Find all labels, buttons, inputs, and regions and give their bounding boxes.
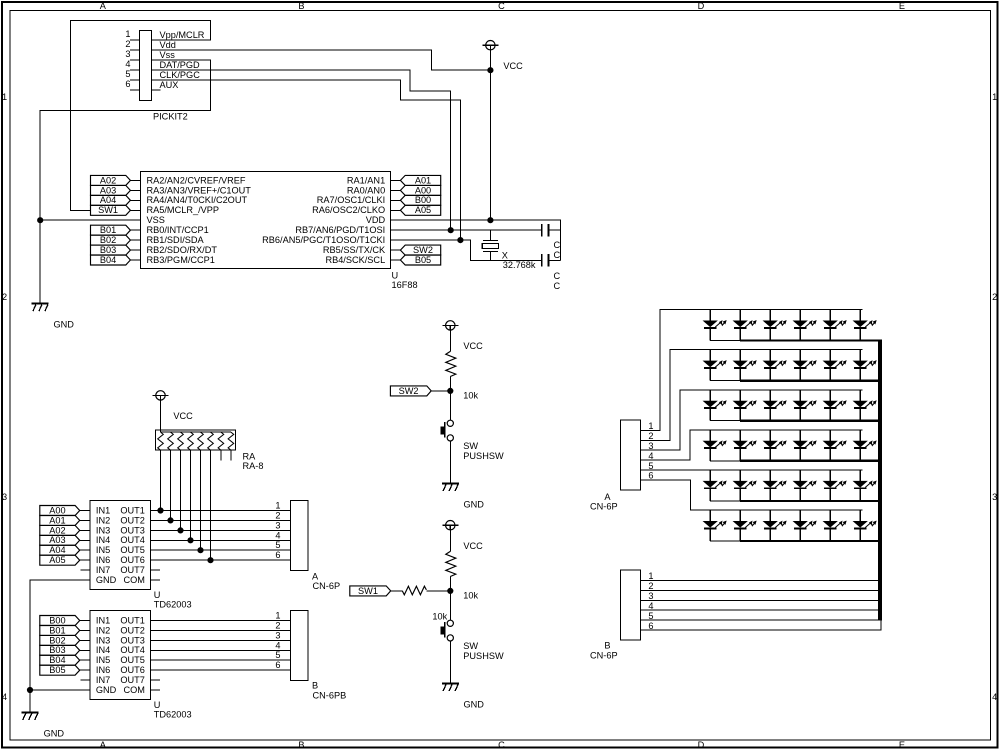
svg-text:B05: B05 bbox=[415, 255, 431, 265]
wire RA-8 lead 6 to OUT6 bbox=[210, 450, 212, 560]
wire row4 cathode thin bbox=[710, 460, 740, 462]
svg-text:CN-6P: CN-6P bbox=[590, 501, 618, 511]
net flag SW1 at U1 left bbox=[91, 205, 141, 215]
wire VCC to RA-8 bbox=[160, 400, 162, 432]
svg-text:Vpp/MCLR: Vpp/MCLR bbox=[160, 30, 205, 40]
wire CN-B pin2 to bus bbox=[641, 589, 881, 591]
svg-text:A05: A05 bbox=[415, 205, 431, 215]
wire Vss to GND rail bbox=[40, 60, 210, 304]
wire row2 cathode thin bbox=[710, 380, 740, 382]
svg-text:RB0/INT/CCP1: RB0/INT/CCP1 bbox=[147, 225, 209, 235]
svg-text:GND: GND bbox=[54, 320, 75, 330]
svg-text:3: 3 bbox=[125, 49, 130, 59]
LED D32 row3 col2 bbox=[734, 390, 756, 421]
svg-text:A04: A04 bbox=[49, 545, 65, 555]
TD62003 lower pin names bbox=[96, 615, 145, 695]
svg-text:4: 4 bbox=[648, 451, 653, 461]
svg-text:SW: SW bbox=[463, 641, 478, 651]
net flag A05 at U1 right bbox=[391, 205, 441, 215]
svg-text:B00: B00 bbox=[415, 195, 431, 205]
junction VCC/VDD bbox=[488, 218, 493, 223]
svg-text:X: X bbox=[502, 250, 508, 260]
svg-text:CN-6P: CN-6P bbox=[313, 581, 341, 591]
LED D16 row1 col6 bbox=[854, 310, 876, 341]
svg-text:PUSHSW: PUSHSW bbox=[463, 651, 504, 661]
svg-text:OUT4: OUT4 bbox=[120, 535, 145, 545]
net flag B00 at U1 right bbox=[391, 195, 441, 205]
net flag A05 at TD62003 upper bbox=[40, 555, 90, 565]
wire RA-8 lead 1 to OUT1 bbox=[160, 450, 162, 510]
wire CN-B pin5 to bus bbox=[641, 619, 881, 621]
net flag B02 at TD62003 lower bbox=[40, 635, 90, 645]
svg-text:B03: B03 bbox=[49, 645, 65, 655]
svg-text:RA5/MCLR_/VPP: RA5/MCLR_/VPP bbox=[147, 205, 220, 215]
net flag B05 at TD62003 lower bbox=[40, 665, 90, 675]
svg-text:RA-8: RA-8 bbox=[243, 461, 264, 471]
svg-text:RB6/AN5/PGC/T1OSO/T1CKI: RB6/AN5/PGC/T1OSO/T1CKI bbox=[262, 235, 385, 245]
wire CN-A pin3 row3 rail bbox=[641, 390, 863, 450]
svg-text:GND: GND bbox=[96, 575, 117, 585]
svg-text:U: U bbox=[154, 590, 161, 600]
ground GND top-left bbox=[32, 304, 75, 330]
junction SW1 node bbox=[448, 588, 453, 593]
svg-text:AUX: AUX bbox=[160, 80, 179, 90]
power VCC top bbox=[482, 41, 523, 71]
svg-text:A03: A03 bbox=[49, 535, 65, 545]
connector B CN-6PB left bbox=[275, 611, 346, 701]
svg-text:IN3: IN3 bbox=[96, 635, 110, 645]
bus row3 cathode rail bbox=[740, 420, 882, 422]
ground GND switch lower bbox=[442, 684, 484, 710]
LED D43 row4 col3 bbox=[764, 430, 786, 461]
net flag SW2 at switch bbox=[390, 386, 450, 396]
svg-text:2: 2 bbox=[2, 292, 7, 302]
svg-text:1: 1 bbox=[125, 29, 130, 39]
svg-text:OUT1: OUT1 bbox=[120, 615, 145, 625]
wire row3 cathode thin bbox=[710, 420, 740, 422]
svg-text:A01: A01 bbox=[49, 515, 65, 525]
LED D24 row2 col4 bbox=[794, 350, 816, 381]
LED D64 row6 col4 bbox=[794, 510, 816, 541]
svg-text:RA2/AN2/CVREF/VREF: RA2/AN2/CVREF/VREF bbox=[147, 175, 246, 185]
TD62003 lower reference bbox=[154, 700, 192, 720]
svg-text:A05: A05 bbox=[49, 555, 65, 565]
resistor 10k vertical lower bbox=[446, 551, 479, 600]
net flag A01 at TD62003 upper bbox=[40, 515, 90, 525]
svg-text:B: B bbox=[298, 740, 304, 750]
wire OUT2 to CN-6P A bbox=[151, 519, 291, 521]
LED D44 row4 col4 bbox=[794, 430, 816, 461]
wire RA-8 lead 2 to OUT2 bbox=[170, 450, 172, 520]
wire switch to GND bbox=[449, 441, 451, 484]
LED D25 row2 col5 bbox=[824, 350, 846, 381]
wire RB6/T1OSO routing bbox=[391, 240, 542, 260]
wire RA-8 lead 4 to OUT4 bbox=[190, 450, 192, 540]
svg-text:B04: B04 bbox=[49, 655, 65, 665]
svg-text:SW2: SW2 bbox=[399, 386, 419, 396]
TD62003 upper pin names bbox=[96, 505, 145, 585]
svg-text:A03: A03 bbox=[100, 185, 116, 195]
svg-text:OUT7: OUT7 bbox=[120, 565, 145, 575]
wire GND upper TD to rail bbox=[30, 580, 90, 690]
wire CN-A pin1 row1 rail bbox=[641, 310, 863, 431]
wire row5 cathode thin bbox=[710, 500, 740, 502]
power VCC switch SW2 bbox=[442, 321, 483, 351]
svg-text:PUSHSW: PUSHSW bbox=[463, 451, 504, 461]
net flag B01 at TD62003 lower bbox=[40, 625, 90, 635]
svg-text:IN2: IN2 bbox=[96, 625, 110, 635]
svg-text:IN6: IN6 bbox=[96, 555, 110, 565]
svg-text:2: 2 bbox=[648, 431, 653, 441]
svg-text:VSS: VSS bbox=[147, 215, 165, 225]
TD62003 upper reference bbox=[154, 590, 192, 610]
net flag B00 at TD62003 lower bbox=[40, 615, 90, 625]
svg-text:3: 3 bbox=[648, 441, 653, 451]
net flag B02 at U1 left bbox=[91, 235, 141, 245]
svg-text:3: 3 bbox=[275, 630, 280, 640]
svg-text:C: C bbox=[554, 281, 561, 291]
net flag A04 at U1 left bbox=[91, 195, 141, 205]
power VCC RA-8 bbox=[153, 391, 194, 421]
wire RB7/T1OSI to C and X bbox=[391, 229, 542, 231]
LED D55 row5 col5 bbox=[824, 470, 846, 501]
U1 16F88 left pin names bbox=[147, 175, 252, 265]
net flag A03 at U1 left bbox=[91, 185, 141, 195]
svg-text:DAT/PGD: DAT/PGD bbox=[160, 60, 201, 70]
bus row6 cathode rail bbox=[740, 540, 882, 542]
svg-text:OUT6: OUT6 bbox=[120, 665, 145, 675]
svg-text:Vdd: Vdd bbox=[160, 40, 176, 50]
LED D31 row3 col1 bbox=[704, 390, 726, 421]
wire GND lower TD bbox=[30, 689, 90, 691]
wire GND rail to symbol bbox=[29, 690, 31, 713]
svg-text:4: 4 bbox=[275, 640, 280, 650]
net flag B04 at U1 left bbox=[91, 255, 141, 265]
junction OUT1 bbox=[158, 508, 163, 513]
svg-text:A02: A02 bbox=[100, 175, 116, 185]
svg-text:VDD: VDD bbox=[366, 215, 386, 225]
svg-text:GND: GND bbox=[96, 685, 117, 695]
U1 16F88 right pin names bbox=[262, 175, 386, 265]
junction OUT4 bbox=[188, 538, 193, 543]
svg-text:IN3: IN3 bbox=[96, 525, 110, 535]
svg-text:A01: A01 bbox=[415, 175, 431, 185]
svg-text:RB5/SS/TX/CK: RB5/SS/TX/CK bbox=[323, 245, 386, 255]
LED D12 row1 col2 bbox=[734, 310, 756, 341]
power VCC switch SW1 bbox=[442, 521, 483, 551]
LED D23 row2 col3 bbox=[764, 350, 786, 381]
svg-text:A00: A00 bbox=[415, 185, 431, 195]
wire CN-B pin3 to bus bbox=[641, 599, 881, 601]
wire VCC to R 10k bbox=[449, 330, 451, 351]
svg-text:RA6/OSC2/CLKO: RA6/OSC2/CLKO bbox=[312, 205, 385, 215]
net flag B05 at U1 right bbox=[391, 255, 441, 265]
svg-text:VCC: VCC bbox=[463, 541, 483, 551]
ground GND bottom-left bbox=[22, 713, 65, 739]
net flag SW1 at switch bbox=[350, 586, 403, 596]
svg-text:1: 1 bbox=[648, 571, 653, 581]
net flag B03 at U1 left bbox=[91, 245, 141, 255]
svg-text:B04: B04 bbox=[100, 255, 116, 265]
svg-text:RA1/AN1: RA1/AN1 bbox=[347, 175, 385, 185]
op IC U TD62003 upper body bbox=[90, 501, 151, 590]
LED D62 row6 col2 bbox=[734, 510, 756, 541]
svg-text:2: 2 bbox=[648, 581, 653, 591]
junction SW2 node bbox=[448, 388, 453, 393]
connector A CN-6P matrix bbox=[590, 420, 654, 511]
wire CN-A pin5 row5 rail bbox=[641, 469, 863, 471]
LED D63 row6 col3 bbox=[764, 510, 786, 541]
wire CN-A pin2 row2 rail bbox=[641, 350, 863, 441]
svg-text:10k: 10k bbox=[432, 611, 447, 621]
svg-text:4: 4 bbox=[275, 530, 280, 540]
svg-text:OUT3: OUT3 bbox=[120, 635, 145, 645]
svg-text:OUT6: OUT6 bbox=[120, 555, 145, 565]
RA-8 short stub leads 7 8 bbox=[221, 450, 231, 461]
LED D53 row5 col3 bbox=[764, 470, 786, 501]
bus row5 cathode rail bbox=[740, 500, 882, 502]
svg-text:RB4/SCK/SCL: RB4/SCK/SCL bbox=[325, 255, 385, 265]
net flag A04 at TD62003 upper bbox=[40, 545, 90, 555]
svg-text:OUT7: OUT7 bbox=[120, 675, 145, 685]
svg-text:C: C bbox=[554, 240, 561, 250]
wire R to switch node lower bbox=[449, 577, 451, 621]
svg-text:OUT5: OUT5 bbox=[120, 655, 145, 665]
LED D52 row5 col2 bbox=[734, 470, 756, 501]
resistor array RA RA-8 bbox=[156, 430, 264, 471]
svg-text:U: U bbox=[392, 270, 399, 280]
OUT7 COM stubs lower bbox=[151, 680, 161, 690]
svg-text:RB7/AN6/PGD/T1OSI: RB7/AN6/PGD/T1OSI bbox=[295, 225, 385, 235]
switch SW PUSHSW lower bbox=[441, 620, 504, 661]
LED D41 row4 col1 bbox=[704, 430, 726, 461]
svg-text:E: E bbox=[899, 1, 905, 11]
junction DAT/RB7 bbox=[448, 228, 453, 233]
svg-text:E: E bbox=[899, 740, 905, 750]
svg-text:RB3/PGM/CCP1: RB3/PGM/CCP1 bbox=[147, 255, 215, 265]
svg-text:CN-6P: CN-6P bbox=[590, 650, 618, 660]
svg-text:1: 1 bbox=[2, 92, 7, 102]
svg-text:1: 1 bbox=[992, 92, 997, 102]
svg-text:IN2: IN2 bbox=[96, 515, 110, 525]
bus row2 cathode rail bbox=[740, 379, 882, 381]
svg-text:RB2/SDO/RX/DT: RB2/SDO/RX/DT bbox=[147, 245, 218, 255]
svg-text:GND: GND bbox=[464, 699, 485, 709]
svg-text:5: 5 bbox=[275, 540, 280, 550]
svg-text:RA7/OSC1/CLKI: RA7/OSC1/CLKI bbox=[317, 195, 385, 205]
svg-text:B00: B00 bbox=[49, 615, 65, 625]
svg-text:U: U bbox=[154, 700, 161, 710]
capacitor C lower bbox=[542, 254, 561, 291]
wire OUT3 to CN-6P A bbox=[151, 529, 291, 531]
svg-text:C: C bbox=[554, 271, 561, 281]
svg-text:VCC: VCC bbox=[503, 61, 523, 71]
wire OUT1 to CN-6PB bbox=[151, 620, 291, 622]
svg-text:B02: B02 bbox=[100, 235, 116, 245]
net flag A03 at TD62003 upper bbox=[40, 535, 90, 545]
svg-text:TD62003: TD62003 bbox=[154, 710, 192, 720]
svg-text:6: 6 bbox=[275, 660, 280, 670]
svg-text:10k: 10k bbox=[463, 591, 478, 601]
junction OUT2 bbox=[168, 518, 173, 523]
wire CN-B pin6 to bus bbox=[641, 620, 882, 630]
svg-text:6: 6 bbox=[648, 621, 653, 631]
connector PICKIT2 body bbox=[130, 31, 161, 101]
svg-text:RA0/AN0: RA0/AN0 bbox=[347, 185, 385, 195]
svg-text:OUT1: OUT1 bbox=[120, 505, 145, 515]
switch SW PUSHSW upper bbox=[441, 420, 504, 461]
svg-text:IN5: IN5 bbox=[96, 655, 110, 665]
bus row4 cathode rail bbox=[740, 460, 882, 462]
LED D42 row4 col2 bbox=[734, 430, 756, 461]
LED D11 row1 col1 bbox=[704, 310, 726, 341]
svg-text:COM: COM bbox=[123, 575, 144, 585]
junction GND rail bbox=[27, 687, 32, 692]
svg-text:OUT3: OUT3 bbox=[120, 525, 145, 535]
LED D65 row6 col5 bbox=[824, 510, 846, 541]
svg-text:A02: A02 bbox=[49, 525, 65, 535]
wire VSS pin to GND rail bbox=[40, 219, 140, 221]
net flag A00 at TD62003 upper bbox=[40, 505, 90, 515]
svg-text:IN1: IN1 bbox=[96, 505, 110, 515]
svg-text:IN4: IN4 bbox=[96, 645, 110, 655]
wire OUT4 to CN-6P A bbox=[151, 539, 291, 541]
svg-text:A: A bbox=[100, 740, 107, 750]
U1 reference label bbox=[392, 270, 418, 290]
svg-text:IN7: IN7 bbox=[96, 565, 110, 575]
LED D21 row2 col1 bbox=[704, 350, 726, 381]
svg-text:OUT2: OUT2 bbox=[120, 625, 145, 635]
net flag B04 at TD62003 lower bbox=[40, 655, 90, 665]
LED D56 row5 col6 bbox=[854, 470, 876, 501]
svg-text:6: 6 bbox=[125, 79, 130, 89]
svg-text:2: 2 bbox=[992, 292, 997, 302]
IN7 stub lower bbox=[81, 679, 90, 681]
wire RA-8 lead 3 to OUT3 bbox=[180, 450, 182, 530]
junction Vdd/VCC bbox=[488, 68, 493, 73]
svg-text:1: 1 bbox=[648, 421, 653, 431]
svg-text:D: D bbox=[698, 740, 705, 750]
svg-text:16F88: 16F88 bbox=[392, 280, 418, 290]
wire OUT2 to CN-6PB bbox=[151, 629, 291, 631]
svg-text:A00: A00 bbox=[49, 505, 65, 515]
svg-text:10k: 10k bbox=[463, 391, 478, 401]
svg-text:COM: COM bbox=[123, 685, 144, 695]
wire row1 cathode thin bbox=[710, 340, 740, 342]
svg-text:D: D bbox=[698, 1, 705, 11]
LED D13 row1 col3 bbox=[764, 310, 786, 341]
svg-text:B03: B03 bbox=[100, 245, 116, 255]
LED D66 row6 col6 bbox=[854, 510, 876, 541]
bus row1 cathode rail bbox=[740, 339, 882, 341]
svg-text:A: A bbox=[100, 1, 107, 11]
OUT7 COM stubs upper bbox=[151, 570, 161, 580]
svg-text:B: B bbox=[312, 681, 318, 691]
bus vertical column bbox=[878, 339, 882, 620]
junction CLK/RB6 bbox=[458, 238, 463, 243]
wire zigzag to node bbox=[426, 590, 450, 592]
svg-text:IN7: IN7 bbox=[96, 675, 110, 685]
svg-text:C: C bbox=[554, 250, 561, 260]
LED D51 row5 col1 bbox=[704, 470, 726, 501]
LED D61 row6 col1 bbox=[704, 510, 726, 541]
svg-text:TD62003: TD62003 bbox=[154, 600, 192, 610]
op IC U 16F88 body bbox=[141, 171, 391, 268]
wire CN-A pin6 row6 rail bbox=[641, 480, 863, 510]
svg-text:SW1: SW1 bbox=[98, 205, 118, 215]
LED D46 row4 col6 bbox=[854, 430, 876, 461]
svg-text:B01: B01 bbox=[49, 625, 65, 635]
svg-text:2: 2 bbox=[275, 620, 280, 630]
svg-text:B05: B05 bbox=[49, 665, 65, 675]
svg-text:4: 4 bbox=[992, 692, 997, 702]
svg-text:A: A bbox=[312, 571, 319, 581]
net flag A02 at TD62003 upper bbox=[40, 525, 90, 535]
resistor 10k horizontal bbox=[402, 586, 447, 621]
svg-text:B02: B02 bbox=[49, 635, 65, 645]
svg-text:1: 1 bbox=[275, 501, 280, 511]
svg-text:B01: B01 bbox=[100, 225, 116, 235]
svg-text:6: 6 bbox=[648, 471, 653, 481]
junction OUT5 bbox=[198, 548, 203, 553]
svg-text:2: 2 bbox=[125, 39, 130, 49]
svg-text:5: 5 bbox=[275, 650, 280, 660]
wire DAT/PGD to RB7 bbox=[152, 70, 451, 230]
svg-text:RA4/AN4/T0CKI/C2OUT: RA4/AN4/T0CKI/C2OUT bbox=[147, 195, 248, 205]
net flag SW2 at U1 right bbox=[391, 245, 441, 255]
op IC U TD62003 lower body bbox=[90, 611, 151, 700]
net flag A00 at U1 right bbox=[391, 185, 441, 195]
wire OUT4 to CN-6PB bbox=[151, 649, 291, 651]
svg-text:IN1: IN1 bbox=[96, 615, 110, 625]
svg-text:B: B bbox=[604, 641, 610, 651]
net flag B03 at TD62003 lower bbox=[40, 645, 90, 655]
svg-text:C: C bbox=[498, 740, 505, 750]
LED D26 row2 col6 bbox=[854, 350, 876, 381]
svg-text:4: 4 bbox=[648, 601, 653, 611]
net flag A01 at U1 right bbox=[391, 175, 441, 185]
wire row6 cathode thin bbox=[710, 540, 740, 542]
svg-text:VCC: VCC bbox=[173, 411, 193, 421]
svg-text:SW1: SW1 bbox=[358, 586, 378, 596]
svg-text:GND: GND bbox=[44, 728, 65, 738]
crystal X 32.768k bbox=[482, 230, 536, 270]
svg-text:IN5: IN5 bbox=[96, 545, 110, 555]
svg-text:SW: SW bbox=[463, 441, 478, 451]
wire CN-A pin4 row4 rail bbox=[641, 430, 863, 460]
wire R to switch node bbox=[449, 377, 451, 421]
PICKIT2 pin labels bbox=[160, 30, 205, 90]
svg-text:RA: RA bbox=[243, 451, 257, 461]
svg-text:B: B bbox=[298, 1, 304, 11]
wire CLK/PGC to RB6 bbox=[152, 80, 461, 240]
wire OUT1 to CN-6P A bbox=[151, 510, 291, 512]
svg-text:5: 5 bbox=[648, 461, 653, 471]
LED D54 row5 col4 bbox=[794, 470, 816, 501]
svg-text:A04: A04 bbox=[100, 195, 116, 205]
svg-text:OUT5: OUT5 bbox=[120, 545, 145, 555]
svg-text:6: 6 bbox=[275, 550, 280, 560]
svg-text:SW2: SW2 bbox=[413, 245, 433, 255]
svg-text:3: 3 bbox=[992, 492, 997, 502]
resistor 10k upper bbox=[446, 351, 479, 400]
svg-text:VCC: VCC bbox=[463, 341, 483, 351]
svg-text:4: 4 bbox=[125, 59, 130, 69]
LED D14 row1 col4 bbox=[794, 310, 816, 341]
connector B CN-6P matrix bbox=[590, 570, 654, 660]
wire VCC to R 10k lower bbox=[449, 530, 451, 552]
svg-text:OUT2: OUT2 bbox=[120, 515, 145, 525]
